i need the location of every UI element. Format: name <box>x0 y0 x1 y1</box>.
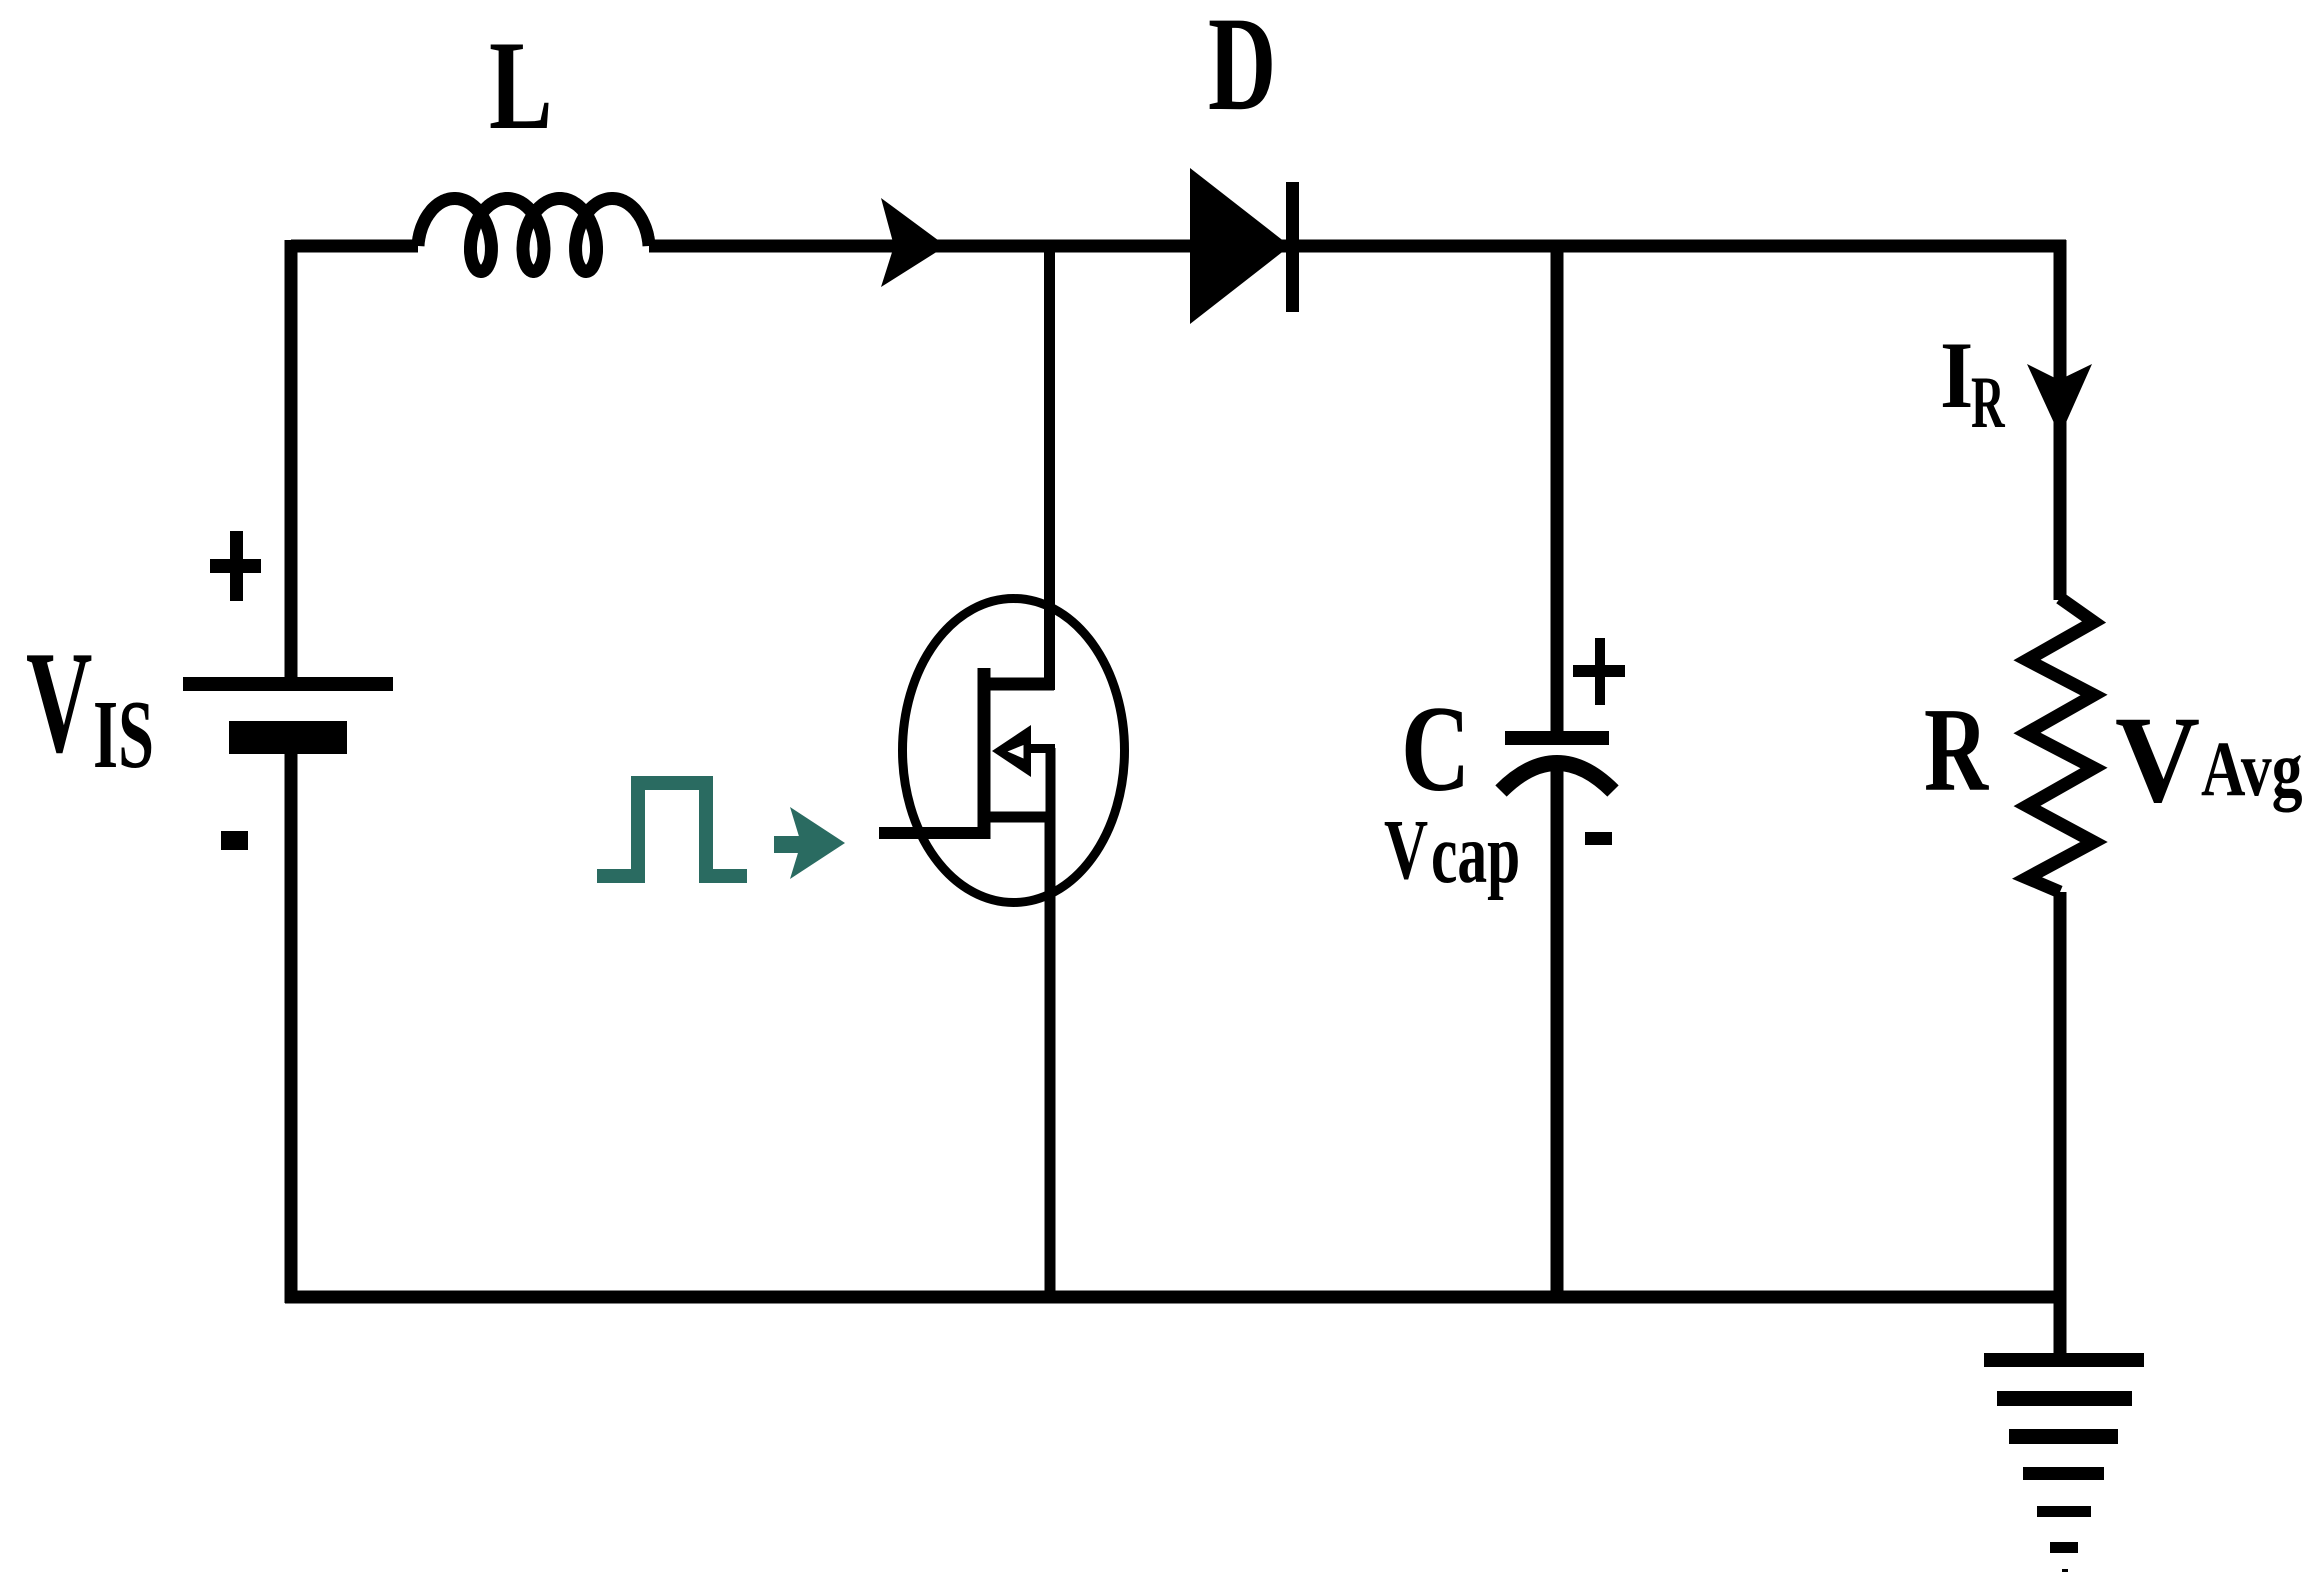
svg-text:R: R <box>1971 362 2006 443</box>
svg-text:C: C <box>1401 681 1470 817</box>
svg-text:IS: IS <box>93 681 154 788</box>
svg-text:V: V <box>1384 803 1428 898</box>
svg-text:I: I <box>1940 322 1973 428</box>
svg-text:cap: cap <box>1431 807 1520 901</box>
svg-text:V: V <box>26 622 92 784</box>
svg-text:Avg: Avg <box>2201 726 2303 813</box>
svg-text:D: D <box>1208 0 1276 139</box>
svg-text:V: V <box>2115 691 2200 828</box>
svg-text:L: L <box>489 16 553 156</box>
svg-text:R: R <box>1924 683 1990 816</box>
